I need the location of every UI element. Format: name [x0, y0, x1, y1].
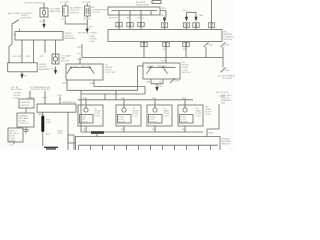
svg-text:LOCK: LOCK	[164, 116, 170, 118]
svg-text:SWITCH: SWITCH	[21, 105, 30, 107]
svg-text:ORN: ORN	[160, 15, 165, 17]
box wiper motor assembly	[8, 63, 38, 72]
svg-text:BLK: BLK	[52, 68, 57, 70]
motor box inner text	[81, 2, 202, 124]
svg-text:LOCK: LOCK	[148, 65, 154, 67]
svg-text:ORN: ORN	[161, 61, 166, 63]
svg-text:ORN: ORN	[175, 81, 180, 83]
box RH front door lock switch	[143, 63, 180, 79]
svg-text:TAN: TAN	[83, 97, 88, 100]
bottom bus	[81, 131, 203, 133]
generator box	[37, 104, 76, 112]
svg-text:LOCK: LOCK	[196, 116, 202, 118]
svg-text:MOTOR: MOTOR	[61, 61, 69, 63]
svg-text:4: 4	[153, 2, 154, 4]
wire: columns join bus	[65, 20, 87, 28]
wire: fuse output w/ arrow	[43, 19, 45, 25]
svg-text:BLK/PPT: BLK/PPT	[109, 17, 118, 19]
svg-text:LT GRN: LT GRN	[27, 98, 35, 100]
svg-text:ORN: ORN	[225, 70, 230, 72]
svg-text:BLK: BLK	[152, 129, 157, 131]
svg-text:ORN: ORN	[208, 45, 213, 47]
svg-text:TAN: TAN	[121, 97, 126, 100]
ground	[23, 127, 29, 133]
box wiper switch assembly	[15, 32, 63, 41]
svg-text:ORN: ORN	[225, 45, 230, 47]
svg-text:DK GRN: DK GRN	[61, 2, 70, 4]
wire: HOT IN ACCY feed (PK)	[9, 20, 19, 63]
svg-text:UNLOCK: UNLOCK	[158, 65, 167, 67]
svg-text:BLK: BLK	[10, 145, 15, 147]
svg-text:GRY: GRY	[62, 83, 67, 85]
fusible link black bar	[42, 112, 44, 115]
svg-text:GENERATOR: GENERATOR	[62, 101, 76, 104]
wire: motor output w/ arrow	[55, 67, 57, 71]
blower resistors box	[108, 7, 160, 15]
motor outputs to bus	[86, 126, 185, 132]
svg-text:CONTROL MODULE: CONTROL MODULE	[30, 89, 51, 91]
svg-text:HOT AT ALL TIMES: HOT AT ALL TIMES	[78, 31, 97, 34]
svg-text:ORN: ORN	[57, 95, 62, 97]
svg-text:MOTOR: MOTOR	[119, 122, 127, 124]
svg-text:IGNITION: IGNITION	[21, 102, 31, 104]
svg-text:PANEL: PANEL	[9, 140, 17, 143]
svg-text:CLUSTER: CLUSTER	[222, 78, 232, 80]
svg-text:LOCK: LOCK	[133, 116, 139, 118]
tiny note box top right	[152, 1, 161, 4]
bottom left text box	[8, 128, 23, 142]
svg-text:BLK: BLK	[46, 134, 51, 136]
wire from RH switch left side	[138, 66, 144, 90]
wire: box2 output w/ arrow	[21, 72, 23, 75]
svg-text:3 20A: 3 20A	[13, 97, 19, 100]
svg-text:MOTOR: MOTOR	[181, 122, 189, 124]
svg-text:SWITCH: SWITCH	[70, 13, 79, 15]
svg-text:CLUTCH: CLUTCH	[92, 12, 101, 14]
wire: feed to coolant fuse	[43, 3, 45, 8]
long vertical from top	[211, 0, 213, 23]
svg-text:TAN: TAN	[199, 14, 204, 17]
bottom connector strip box	[75, 137, 220, 150]
svg-text:1 PWR: 1 PWR	[218, 96, 225, 98]
svg-text:MOTOR: MOTOR	[150, 122, 158, 124]
narrow box left of strip	[68, 135, 74, 150]
svg-text:BLU: BLU	[159, 82, 164, 84]
svg-text:SWITCH: SWITCH	[182, 72, 191, 74]
wire: drop into RH door lock switch	[165, 58, 167, 64]
svg-text:TAN: TAN	[126, 16, 131, 19]
bus: long horizontal mid bus	[82, 57, 223, 59]
door lock motor M2 (LF)	[78, 105, 103, 126]
bus2b lower	[81, 94, 145, 100]
arrows feeding control box	[163, 18, 166, 23]
wire: drop into LH door lock switch	[79, 58, 81, 65]
svg-text:LOCK: LOCK	[95, 116, 101, 118]
wire: LH switch outputs	[67, 80, 94, 91]
wire tick into box top	[19, 29, 21, 32]
svg-text:TAN: TAN	[152, 97, 157, 100]
svg-text:3 30A: 3 30A	[89, 40, 95, 43]
box A/C heater control switch	[108, 30, 222, 42]
below control box connectors and wires	[144, 42, 186, 58]
door lock motor M4 (LH rear)	[147, 105, 172, 126]
svg-text:BRN: BRN	[38, 114, 43, 116]
svg-text:CONTROL MODULE: CONTROL MODULE	[24, 2, 45, 4]
wire: resistor outputs	[119, 15, 141, 22]
HOT IN RUN feed right	[207, 104, 219, 137]
svg-text:SWITCH: SWITCH	[222, 144, 231, 146]
svg-text:ORN: ORN	[77, 59, 82, 61]
svg-text:DK GRN: DK GRN	[83, 2, 92, 4]
bus3 motors feed	[78, 99, 193, 101]
svg-text:CLUSTER: CLUSTER	[19, 123, 29, 125]
svg-text:HOT IN RUN: HOT IN RUN	[216, 92, 229, 94]
svg-text:BLK: BLK	[163, 49, 168, 51]
door lock motor M5 (RH rear)	[178, 105, 203, 126]
fusible link diag ORN	[170, 78, 175, 83]
svg-text:BLK: BLK	[40, 21, 45, 23]
svg-text:ORN: ORN	[58, 133, 63, 135]
svg-text:GRY: GRY	[26, 56, 31, 58]
svg-text:BLK: BLK	[83, 129, 88, 131]
svg-text:LT BLU: LT BLU	[137, 17, 145, 19]
arrow down BLK	[86, 29, 89, 34]
svg-text:ORN: ORN	[77, 47, 82, 49]
left column: ignition switch	[30, 91, 60, 104]
wire to instrument cluster	[222, 58, 224, 68]
svg-text:TAN: TAN	[90, 82, 95, 85]
component A/C compressor clutch	[85, 4, 91, 19]
svg-text:FUSE 25A: FUSE 25A	[21, 16, 32, 19]
connector pair symbols	[116, 22, 215, 46]
ground heavy	[44, 147, 58, 149]
door lock motor M3 (RF)	[116, 105, 141, 126]
svg-text:SWITCH: SWITCH	[224, 39, 233, 41]
svg-text:ORN: ORN	[42, 98, 47, 100]
svg-text:BRN: BRN	[209, 133, 214, 135]
svg-text:TAN: TAN	[146, 81, 151, 84]
svg-text:FAN FUSE: FAN FUSE	[50, 10, 61, 13]
svg-text:TAN: TAN	[182, 97, 187, 100]
drops into lock motors	[86, 100, 185, 105]
svg-text:BLK: BLK	[121, 129, 126, 131]
wire: RH switch outputs join and arrow	[151, 79, 163, 88]
svg-text:LOCK: LOCK	[205, 114, 211, 116]
box LH front door lock switch	[66, 64, 103, 80]
svg-text:RESISTORS: RESISTORS	[136, 5, 149, 7]
svg-text:UNLOCK: UNLOCK	[81, 66, 90, 68]
svg-text:ASSEMBLY: ASSEMBLY	[39, 68, 51, 71]
bus2 lower	[67, 90, 138, 100]
svg-text:BLK: BLK	[89, 27, 94, 29]
svg-text:ALL TIMES: ALL TIMES	[11, 88, 22, 91]
fuse F1 coolant fan fuse	[40, 8, 48, 17]
svg-text:ASSEMBLY: ASSEMBLY	[65, 37, 77, 40]
wire: box1 to box2 runs	[22, 40, 56, 63]
svg-text:BLK: BLK	[183, 49, 188, 51]
connector pairs top of control box	[119, 27, 141, 30]
long drop left	[80, 90, 82, 132]
wire: HOT AT ALL TIMES feed to bus	[81, 44, 83, 58]
component A/C pressure switch	[63, 4, 69, 19]
generator second output	[68, 112, 75, 143]
svg-text:DK BLU: DK BLU	[83, 18, 91, 20]
svg-text:30A: 30A	[221, 102, 225, 105]
svg-text:ORN: ORN	[161, 8, 166, 10]
svg-text:BLK: BLK	[182, 129, 187, 131]
fusible links below box	[204, 42, 209, 57]
svg-text:LINK: LINK	[46, 122, 51, 124]
wire ORN from resistor box	[160, 11, 166, 18]
svg-text:LOCK SW: LOCK SW	[105, 72, 116, 74]
bus1 mid lower	[94, 86, 145, 94]
svg-text:BLK: BLK	[62, 18, 67, 20]
svg-text:MOTOR: MOTOR	[81, 122, 89, 124]
svg-text:LOCK: LOCK	[72, 66, 78, 68]
svg-text:DK GRN: DK GRN	[13, 56, 22, 58]
motor M1 coolant fan motor	[52, 54, 59, 64]
